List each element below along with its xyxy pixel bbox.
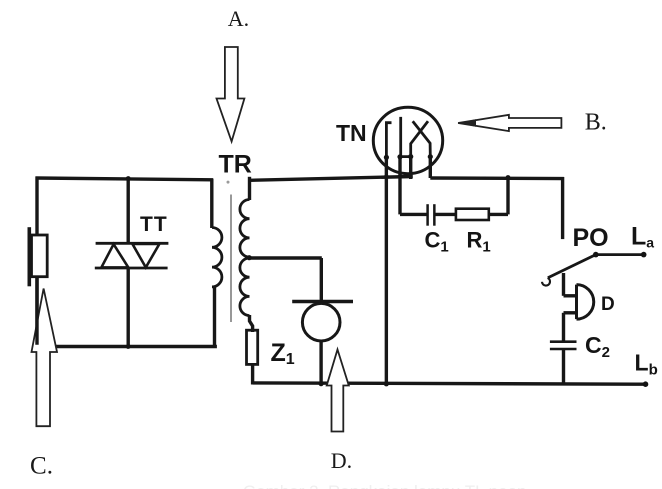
svg-text:B.: B. xyxy=(585,110,607,136)
svg-text:TT: TT xyxy=(140,213,168,236)
svg-text:TR: TR xyxy=(219,151,252,179)
svg-text:D.: D. xyxy=(331,448,352,473)
svg-text:A.: A. xyxy=(228,6,249,31)
svg-text:TN: TN xyxy=(336,120,367,146)
svg-text:PO: PO xyxy=(573,224,609,252)
svg-text:D: D xyxy=(601,294,615,315)
svg-text:Gambar 2. Rangkaian lampu TL n: Gambar 2. Rangkaian lampu TL neon xyxy=(243,482,527,489)
svg-text:C.: C. xyxy=(30,453,53,480)
